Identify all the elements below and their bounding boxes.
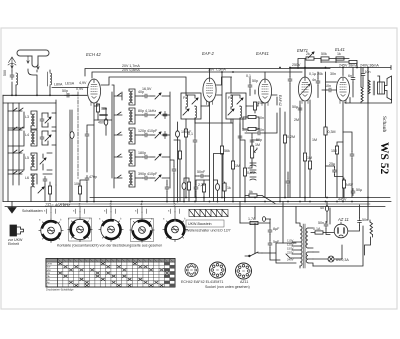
svg-text:220V: 220V [287,251,294,255]
band filter block row 1: LW antenna coil L3 [8,108,56,129]
wire: R8 down [304,161,306,202]
wire: EAF42 cathode drop [209,102,211,198]
resistor R16 below Fi1 [184,129,187,137]
svg-text:50nF: 50nF [197,170,206,174]
wire: y176 link [195,175,210,177]
oscillator coupling coil L2 with core [48,72,52,86]
wire: rail x=8 [7,103,9,202]
wire: rail x=13 [12,103,14,185]
wire: R24 [343,178,344,198]
oscillator bank right rail [162,92,170,188]
oscillator coil bank row 2 [114,108,167,124]
switch position number 4 [141,203,143,213]
wire: T2 connections [343,68,368,104]
svg-text:L80A: L80A [54,83,63,87]
detector load resistor R7 [243,168,246,176]
svg-text:1M: 1M [255,143,260,147]
svg-text:Schaub: Schaub [381,116,387,132]
capacitor C31 [286,179,290,186]
svg-text:ZF = 468 kHz: ZF = 468 kHz [44,202,71,207]
wire: EAF42 II top feed [264,72,266,79]
capacitor 50nF at AZ11 [324,222,328,229]
resistor R25 bottom row [48,186,51,194]
band filter block row 4: aux coil L6 [8,171,52,187]
power transformer T1 [286,223,313,268]
rotary wafer switch S2 [68,212,92,242]
capacitor C21 at bank edge [165,185,169,192]
wire: R22 drop [284,112,286,198]
wire: R25 down [49,194,51,202]
svg-text:L3: L3 [25,115,29,119]
wire: C12 [196,180,204,202]
wire: C23 down [86,183,88,202]
wire: R11 [337,142,343,198]
svg-text:0,2M: 0,2M [287,135,295,139]
smoothing cap C17 [288,77,292,84]
oscillator coil bank row 5 [114,171,161,187]
antenna input capacitor C1 [10,73,14,80]
node dots on antenna bus [11,94,51,96]
wafer contact ticks [44,209,180,214]
bottom chassis bus 1 [90,197,390,199]
svg-text:4,9V: 4,9V [79,81,87,85]
svg-text:50p: 50p [252,79,258,83]
resistor R20 [223,183,226,191]
loudspeaker LS [378,76,392,100]
IF amplifier tube EAF42 [203,78,216,105]
wire: mains entry [266,219,271,223]
coupling capacitor C15 [256,131,263,135]
AVC resistor R6 [231,161,234,169]
wire: Fi1 bottom drops [186,119,195,198]
svg-text:50n: 50n [318,221,324,225]
cathode cap 50uF EL41 [351,189,355,196]
svg-text:1k: 1k [227,186,231,190]
capacitor C20 below Fi2 [238,134,242,141]
mains entry loop [263,217,266,222]
wire: left rail x=3 down [2,95,4,201]
svg-text:100µF: 100µF [181,130,192,134]
UKW connector socket J1 [10,225,24,236]
svg-text:1M: 1M [312,138,317,142]
screen cap 50uF EM71 [298,106,302,113]
svg-text:AZ11: AZ11 [240,280,248,284]
switch position number 5 [174,203,176,213]
bottom chassis bus 3 [60,203,370,205]
wire: C16 [343,132,352,198]
capacitor 5nF mains [268,228,272,235]
rectifier tube AZ11 [334,222,348,238]
wire: R18 [80,180,87,202]
electrolytic C27 [216,184,220,191]
coupling cap 6nF [351,75,355,82]
wire: Fi1 secondary to EAF42 grid [195,102,209,123]
wire: EL41 grid coupling [326,72,337,127]
wire: R17 [174,140,180,202]
boxed capacitor C28 [248,115,256,118]
wire: EAF42 top feed [209,69,211,79]
band filter block row 2: MW antenna coil L4 [8,127,56,146]
wire: ECH42 cathode down [94,103,98,202]
wire: C33 [317,72,319,98]
switch linkage line [5,206,385,208]
wire: R20 [224,182,226,202]
wire antenna to bus [12,69,50,95]
label UKW-Baustein [186,220,224,227]
wire: C27 [214,180,218,201]
wire: pot [248,140,259,168]
svg-text:EM71: EM71 [214,280,223,284]
wire: C34 [249,78,251,96]
grid coupling capacitor C2 [65,93,72,97]
wire: C32 [326,166,344,177]
svg-text:4: 4 [141,203,143,207]
wire: Fi2 bottom drops [231,119,240,198]
wire: choke connections [365,202,371,256]
supply resistor R13 [321,57,329,60]
mains switch contact [245,252,262,257]
svg-text:Fi2: Fi2 [228,96,233,100]
screen resistor R5 [220,146,223,154]
svg-text:5nF: 5nF [273,240,280,244]
wire: R4 branch [204,180,210,202]
capacitor 5nF lower [268,241,272,248]
filter choke Dr1 [370,220,373,237]
cap 10nF speaker [361,71,365,78]
svg-text:5k: 5k [249,190,253,194]
svg-text:L5: L5 [25,156,29,160]
band switch table [46,259,175,292]
wire: AF coupling [245,95,277,133]
resistor R22 [283,135,286,143]
svg-text:10n: 10n [365,70,371,74]
output transformer T2 primary [361,80,375,102]
svg-text:0,1µ 20k: 0,1µ 20k [309,72,323,76]
volume potentiometer P1 [251,146,258,158]
trimmer top right [308,52,314,58]
svg-text:0,1A: 0,1A [313,227,321,231]
EM71 series resistor R9 [308,161,311,169]
wire: 10nF [362,68,364,88]
svg-text:500: 500 [3,70,7,76]
wire: C31 drop [287,172,289,198]
wire: fuse to switch [240,223,270,253]
cathode resistor R4 [202,184,205,192]
svg-text:50µ: 50µ [356,188,362,192]
IF transformer Fi2 can [226,93,246,119]
wire: EL41 cathode [342,102,344,198]
coupling arrows under antenna rod [11,56,39,69]
wire: switch to transformer [262,243,296,263]
switch position number 1 [50,203,52,213]
svg-text:25k: 25k [258,101,264,105]
svg-text:120p 410pF: 120p 410pF [138,129,158,133]
svg-text:10n: 10n [325,84,331,88]
band filter block row 3: SW antenna coil L5 [8,150,52,170]
svg-text:1M: 1M [307,156,312,160]
demodulator tube EAF42 II [258,79,271,106]
wire: C5 branch [70,110,94,202]
wire: C17 [289,68,291,198]
filter capacitor 50uF [358,218,362,225]
wire: top right supply row [298,59,349,78]
wire: rail x=56 right side of band filter [55,100,57,185]
screen bypass capacitor C26 [199,174,206,178]
svg-text:50p: 50p [62,89,68,93]
svg-text:2,2k: 2,2k [198,183,205,187]
EL41 cathode resistor R11 [335,146,338,154]
wire: grid lead into ECH42 [72,94,87,96]
wire: Fi2 secondary to EAF42 II [240,102,258,123]
svg-text:1M: 1M [235,164,240,168]
mains fuse Si 0,1A [248,217,258,225]
oscillator anode blocking bar [100,114,107,116]
svg-text:240V 36mA: 240V 36mA [360,64,379,68]
tuning gang line [94,92,112,178]
tube socket view EM71 [209,262,225,278]
svg-text:EAF41: EAF41 [256,51,269,56]
top right supply row: screen resistor R12 [306,57,314,60]
IF transformer Fi1 can [181,93,201,119]
svg-text:Einheit: Einheit [8,242,19,246]
svg-text:16,5V: 16,5V [142,87,152,91]
resistor R23 on bus [249,194,257,197]
tube socket view ECH42 [185,263,198,276]
svg-text:6n: 6n [348,74,352,78]
wire: EAF42 anode to Fi2 [217,77,232,93]
tube socket view AZ11 [235,263,251,279]
wire: cap down [270,234,280,260]
cathode resistor R1 under ECH42 [96,104,99,112]
wire: rail x=19 [18,103,20,185]
wire: ECH42 anode to Fi1 [101,77,186,95]
wire: AZ11 connections [311,205,360,233]
svg-text:2k: 2k [306,52,310,56]
oscillator bank left rail [112,85,114,188]
bottom chassis bus 2 [3,201,391,203]
boxed capacitor C29 [248,127,256,130]
oscillator coil bank row 4 [114,150,161,166]
wire: osc column [102,108,106,135]
svg-text:56k: 56k [224,149,230,153]
oscillator coupling cap oval [104,119,108,125]
svg-text:8µF: 8µF [273,227,280,231]
wire: R7 [240,124,245,202]
antenna coil L1 [16,73,18,85]
svg-text:1,7A: 1,7A [248,217,256,221]
wire: 40 ohm to heater [326,202,327,223]
svg-text:0,3M: 0,3M [328,130,336,134]
svg-text:ECH42 EAF42 EL41: ECH42 EAF42 EL41 [181,280,214,284]
AF decoupling capacitor C23 [85,176,89,183]
wire: grid line into ECH42 [52,87,88,89]
svg-text:EAF-2: EAF-2 [202,51,215,56]
tuning indicator EM71 [298,77,311,104]
bus junction dots [69,67,369,203]
antenna ANT [8,57,16,70]
bypass capacitor C12 [194,185,198,192]
wire: R9 down [309,169,311,198]
wire: AVC line [195,119,233,202]
rotary wafer switch S1 [39,213,63,243]
svg-text:WS 52: WS 52 [378,142,390,175]
wire: C22 [170,160,174,202]
dropper resistor 40 ohm [325,206,328,212]
wire: EM71 drops [300,100,310,198]
oscillator grid resistor R18 [78,186,81,194]
ground symbol [8,202,16,214]
wire: C21 [166,180,168,202]
chassis dash-dot screen line [77,92,79,180]
svg-text:25µ: 25µ [329,162,335,166]
svg-text:Kontakte (Gesamtansicht) von: Kontakte (Gesamtansicht) von der Bestück… [57,244,162,248]
svg-text:20V 0,8mA: 20V 0,8mA [122,68,140,72]
wire: C24 [177,122,179,202]
rotary wafer switch S5 [163,212,187,242]
cathode electrolytic C25 [182,183,186,190]
svg-text:3: 3 [110,203,112,207]
svg-text:2: 2 [79,203,81,207]
wire: band filter bottom drops [31,182,56,202]
svg-text:390p 410pF: 390p 410pF [138,172,158,176]
electrolytic C6 [70,132,74,139]
svg-text:NSF: NSF [346,183,354,187]
svg-text:50µ: 50µ [292,105,298,109]
grid capacitor C33 [316,79,320,86]
supply resistor R14 [336,57,344,60]
svg-text:470p: 470p [89,175,97,179]
svg-text:LESA: LESA [65,82,75,86]
wire: EM71 top feed [304,68,306,78]
coupling cap C18 grid EL41 [327,88,334,92]
svg-text:Schaltkasten: Schaltkasten [22,209,43,213]
wire: bus resistor leads [245,196,275,204]
svg-text:Drucktasten-Schaltfolge: Drucktasten-Schaltfolge [46,288,74,292]
svg-text:240V: 240V [287,258,294,262]
switch position number 3 [110,203,112,213]
antenna coil housing (ferrite rod T-shape) [17,50,49,67]
svg-text:1k: 1k [337,52,341,56]
resistor R17 horizontal near EAF42 [178,151,181,159]
wire: B+ line 245V [290,62,391,206]
wire: cap to AZ11 [326,229,330,235]
padder capacitor C22 [172,167,176,174]
svg-text:4n: 4n [312,78,316,82]
capacitor C19 below Fi1 [193,138,197,145]
wire: EAF42 II cathode drop [264,103,266,198]
pushbutton switch block Tastensatz [189,210,228,217]
svg-text:ECH 42: ECH 42 [86,52,101,57]
EM71 grid resistor R8 [303,153,306,161]
svg-text:460: 460 [98,121,104,125]
wire: screen feed [217,72,223,198]
wire: 6nF [352,68,354,98]
svg-text:Fi1: Fi1 [183,96,188,100]
svg-text:L6: L6 [25,176,29,180]
wire: mains verticals to fuse [240,202,296,244]
wire: gate loop at x213/223 [214,154,224,202]
wire: C18 [322,89,337,91]
svg-text:Sockel (von unten gesehen): Sockel (von unten gesehen) [205,285,250,289]
wire: screen bus 20V 0,8mA y=72 [92,72,302,78]
svg-text:245V 38mA: 245V 38mA [339,64,358,68]
coupling cap C32 [333,168,337,175]
svg-text:30n: 30n [330,72,336,76]
wire: x280 drop [279,108,281,202]
svg-text:50n: 50n [362,218,368,222]
oscillator coil bank row 3 [114,128,167,144]
svg-text:UKW-Baustein: UKW-Baustein [188,222,212,226]
resistor R24 [342,180,345,188]
tone capacitor stack C14 [250,163,256,180]
wire: horizontal link y=103 [3,102,56,104]
svg-text:0,5M: 0,5M [247,171,255,175]
trimmer bottom row [38,187,44,193]
svg-text:Wellenschalter und EO 12/7: Wellenschalter und EO 12/7 [186,229,231,233]
wire: R10 down [325,135,327,198]
svg-text:50k: 50k [321,52,327,56]
secondary fuse 0,1A [315,231,323,234]
svg-text:50p: 50p [256,138,262,142]
cathode resistor R19 [187,182,190,190]
blocking capacitor C24 [176,131,180,137]
decoupling capacitor C5 [85,132,89,139]
output tube EL41 [336,77,349,104]
wire: detector chain [243,90,259,146]
rotary wafer switch S4 [130,212,154,242]
svg-text:150: 150 [331,149,337,153]
grid resistor R10 [324,127,327,135]
oscillator coil bank row 1 [114,89,161,105]
svg-text:40: 40 [320,206,324,210]
svg-text:36V 7,5mA: 36V 7,5mA [208,68,226,72]
svg-text:10k: 10k [74,182,80,186]
wire: heater circuit [313,226,363,266]
supply resistor R15 [349,60,357,63]
switch position number 2 [79,203,81,213]
capacitor C30 [250,138,254,145]
svg-text:180p: 180p [138,151,146,155]
svg-text:80p 4,1kHz: 80p 4,1kHz [138,109,156,113]
svg-text:AZ 11: AZ 11 [337,217,349,222]
diode load resistor R21 [253,102,256,110]
svg-text:5: 5 [174,203,176,207]
mixer tube ECH42 [87,79,100,106]
svg-text:L4: L4 [25,133,29,137]
wire: C25 R19 pair [184,178,189,202]
EL41 bypass cap C16 [350,152,354,159]
capacitor C34 at EAF42 II [248,83,252,90]
rotary wafer switch S3 [99,212,123,242]
svg-text:2M: 2M [294,118,299,122]
svg-text:EAF42: EAF42 [278,95,282,106]
dial lamp 6,3V [328,256,334,262]
wire: speaker to T2 [345,98,392,104]
wire: screen bus 20V 1,7mA y=68.5 [85,69,330,77]
svg-text:250V: 250V [292,63,301,67]
wire: antenna bus y=95 [3,94,78,96]
